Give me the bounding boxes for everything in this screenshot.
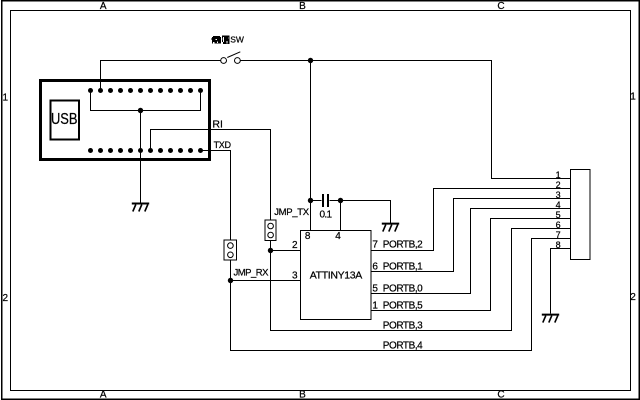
svg-text:TXD: TXD	[214, 140, 232, 150]
svg-text:JMP_TX: JMP_TX	[274, 207, 310, 218]
svg-text:6: 6	[556, 220, 561, 230]
svg-text:1: 1	[630, 92, 636, 103]
svg-text:5: 5	[556, 210, 561, 220]
svg-text:A: A	[100, 389, 107, 400]
svg-text:5: 5	[372, 283, 378, 294]
svg-text:7: 7	[372, 240, 378, 251]
svg-text:C: C	[497, 1, 504, 12]
svg-text:C: C	[497, 389, 504, 400]
svg-text:1: 1	[3, 92, 9, 103]
svg-text:RI: RI	[212, 119, 223, 131]
svg-text:6: 6	[372, 261, 378, 272]
svg-text:2: 2	[292, 240, 298, 251]
svg-text:0.1: 0.1	[320, 210, 333, 221]
svg-text:PORTB,4: PORTB,4	[383, 341, 423, 352]
svg-text:PORTB,2: PORTB,2	[383, 240, 423, 251]
svg-text:ATTINY13A: ATTINY13A	[310, 270, 362, 282]
svg-text:PORTB,1: PORTB,1	[383, 261, 423, 272]
svg-text:3: 3	[556, 190, 561, 200]
svg-text:4: 4	[556, 200, 561, 210]
svg-text:PORTB,0: PORTB,0	[383, 283, 423, 294]
svg-text:A: A	[100, 1, 107, 12]
svg-text:1: 1	[372, 300, 378, 311]
svg-text:8: 8	[556, 240, 561, 250]
svg-text:4: 4	[335, 231, 341, 242]
svg-text:USB: USB	[51, 111, 78, 128]
svg-text:2: 2	[556, 180, 561, 190]
svg-text:1: 1	[556, 170, 561, 180]
svg-text:PORTB,5: PORTB,5	[383, 300, 423, 311]
svg-text:3: 3	[292, 270, 298, 281]
svg-text:PORTB,3: PORTB,3	[383, 321, 423, 332]
svg-text:JMP_RX: JMP_RX	[234, 267, 270, 278]
svg-text:B: B	[299, 389, 306, 400]
svg-text:8: 8	[305, 231, 311, 242]
svg-text:SW: SW	[230, 35, 244, 45]
svg-text:2: 2	[630, 292, 636, 303]
svg-text:2: 2	[3, 293, 9, 304]
svg-text:7: 7	[556, 230, 561, 240]
svg-text:B: B	[299, 1, 306, 12]
